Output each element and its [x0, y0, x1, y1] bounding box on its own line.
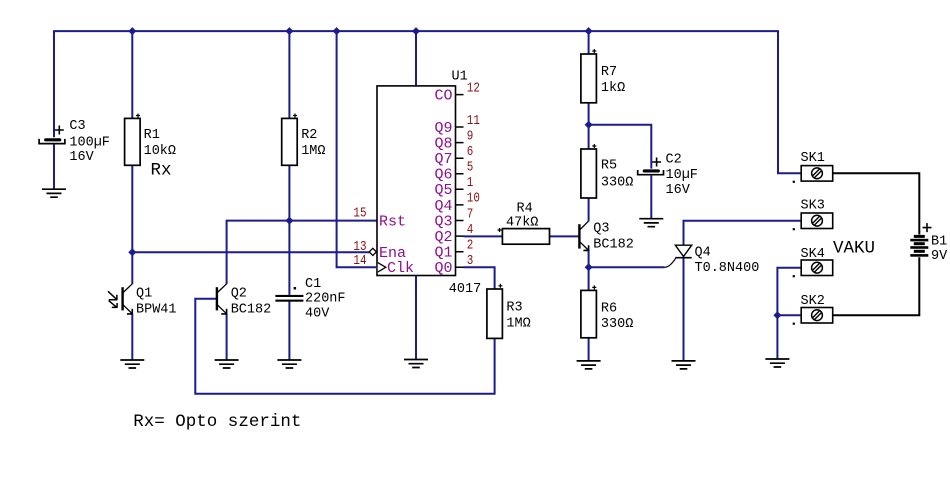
- wire Q3 emitter node: [588, 250, 590, 267]
- wire C3 bottom to ground: [53, 144, 55, 190]
- svg-text:5: 5: [467, 159, 474, 175]
- capacitor C3 cup: [39, 139, 65, 144]
- svg-text:VAKU: VAKU: [833, 238, 875, 258]
- svg-text:Q6: Q6: [434, 167, 452, 184]
- U1 Clk edge triangle pin 14: [378, 263, 386, 272]
- svg-text:R6: R6: [601, 302, 617, 317]
- wire Q1 emitter to ground: [131, 314, 133, 360]
- connector SK1 box: [801, 166, 833, 182]
- node Ena junction at Q1 collector: [128, 248, 136, 256]
- node Clk top junction: [333, 27, 341, 35]
- svg-text:3: 3: [467, 253, 474, 269]
- transistor Q1 collector diagonal: [123, 284, 132, 293]
- svg-text:10kΩ: 10kΩ: [144, 144, 176, 159]
- svg-text:16V: 16V: [69, 150, 94, 165]
- svg-text:1: 1: [467, 175, 474, 191]
- node Q3 emitter junction: [585, 263, 593, 271]
- transistor Q1 light arrow 2: [109, 301, 118, 308]
- node R1 top junction: [128, 27, 136, 35]
- thyristor Q4 cathode bar: [675, 257, 691, 259]
- wire SK1 to battery plus: [833, 173, 920, 234]
- wire Clk net: top rail down to U1 pin 14: [337, 31, 376, 267]
- resistor R1 pin marker: [136, 114, 140, 118]
- wire R6 bottom to ground: [588, 338, 590, 361]
- resistor R4 pin marker: [498, 228, 502, 232]
- svg-text:16V: 16V: [666, 183, 691, 198]
- resistor R3 pin marker: [498, 284, 502, 288]
- svg-text:C3: C3: [69, 119, 85, 134]
- capacitor C1 plates: [275, 295, 303, 297]
- ground U1 VSS: [404, 360, 428, 368]
- svg-text:Q9: Q9: [434, 120, 452, 137]
- svg-text:40V: 40V: [305, 307, 330, 322]
- transistor Q1 light arrow 1: [108, 291, 117, 300]
- resistor R6 pin marker: [592, 285, 596, 289]
- resistor R7 body: [581, 54, 597, 103]
- svg-text:15: 15: [353, 205, 366, 221]
- resistor R2 pin marker: [293, 114, 297, 118]
- capacitor C2 plus plate: [643, 169, 660, 172]
- node R7 R5 C2 junction: [585, 121, 593, 129]
- ground SK4 SK2: [765, 359, 789, 367]
- capacitor C2 cup: [638, 170, 664, 175]
- svg-text:BC182: BC182: [593, 238, 634, 253]
- ground R6: [577, 361, 601, 369]
- svg-text:Clk: Clk: [387, 260, 414, 277]
- transistor Q1 emitter arrow: [127, 309, 133, 314]
- svg-text:1kΩ: 1kΩ: [601, 81, 625, 96]
- svg-text:R5: R5: [601, 159, 617, 174]
- svg-text:Q4: Q4: [695, 245, 711, 260]
- wire node to R6 top: [588, 267, 590, 290]
- transistor Q2 emitter arrow: [221, 309, 227, 314]
- svg-text:R3: R3: [506, 301, 522, 316]
- svg-text:Q3: Q3: [434, 213, 452, 230]
- svg-text:Rst: Rst: [379, 213, 406, 230]
- node Rst junction at R2: [285, 217, 293, 225]
- node R7 top junction: [585, 27, 593, 35]
- svg-text:47kΩ: 47kΩ: [506, 216, 538, 231]
- ground Q4 cathode: [672, 361, 696, 369]
- connector SK2 box: [801, 308, 833, 324]
- wire R7 to R5: [588, 103, 590, 149]
- svg-text:9V: 9V: [931, 249, 948, 264]
- capacitor C3 plus sign: [55, 126, 64, 135]
- svg-text:12: 12: [467, 80, 480, 96]
- resistor R2 body: [282, 118, 298, 165]
- transistor Q1 emitter diagonal: [123, 305, 132, 313]
- svg-text:CO: CO: [434, 88, 452, 105]
- svg-text:Q8: Q8: [434, 136, 452, 153]
- node R2 top junction: [285, 27, 293, 35]
- U1 Ena inversion bubble pin 13: [369, 248, 376, 255]
- transistor Q2 emitter diagonal: [217, 305, 226, 313]
- svg-text:R1: R1: [144, 128, 160, 143]
- wire U1 VDD feed: [415, 31, 417, 86]
- wire U1 Q0 pin 3 to R3 top: [464, 267, 495, 289]
- svg-text:BC182: BC182: [231, 303, 272, 318]
- ground Q2 emitter: [215, 360, 239, 368]
- svg-text:U1: U1: [452, 70, 468, 85]
- svg-text:6: 6: [467, 144, 474, 160]
- svg-text:220nF: 220nF: [305, 292, 346, 307]
- wire Q2 emitter to ground: [226, 314, 228, 360]
- svg-text:SK2: SK2: [801, 294, 825, 309]
- svg-text:C2: C2: [666, 153, 682, 168]
- thyristor Q4 gate diagonal: [665, 258, 676, 267]
- resistor R6 body: [581, 290, 597, 337]
- svg-text:14: 14: [353, 253, 366, 269]
- svg-text:Q5: Q5: [434, 182, 452, 199]
- svg-text:11: 11: [467, 113, 480, 129]
- resistor R5 body: [581, 149, 597, 198]
- svg-text:SK4: SK4: [801, 247, 825, 262]
- transistor Q3 base bar: [578, 224, 580, 248]
- svg-text:SK3: SK3: [801, 199, 825, 214]
- svg-text:BPW41: BPW41: [136, 303, 177, 318]
- wire Q4 cathode to ground: [683, 258, 685, 361]
- svg-text:Q4: Q4: [434, 198, 452, 215]
- wire Ena net to U1 pin 13: [132, 251, 369, 253]
- svg-text:R7: R7: [601, 65, 617, 80]
- svg-text:1MΩ: 1MΩ: [506, 317, 530, 332]
- resistor R5 pin marker: [592, 144, 596, 148]
- wire Q3 emitter to Q4 gate: [589, 266, 665, 268]
- wire SK4 to ground node: [777, 268, 801, 316]
- svg-text:B1: B1: [931, 235, 947, 250]
- svg-text:C1: C1: [305, 277, 321, 292]
- wire Q1 collector: [131, 252, 133, 284]
- wire R5 bottom to Q3 collector: [588, 198, 590, 221]
- svg-text:9: 9: [467, 128, 474, 144]
- U1 pin stubs right: [456, 95, 464, 268]
- transistor Q2 base bar: [216, 287, 218, 310]
- svg-text:R2: R2: [301, 128, 317, 143]
- transistor Q3 emitter arrow: [583, 245, 589, 251]
- thyristor Q4 anode triangle: [675, 245, 691, 256]
- resistor R4 body: [502, 229, 549, 245]
- wire node to C2: [589, 125, 652, 169]
- resistor R7 pin marker: [592, 49, 596, 53]
- svg-text:Q2: Q2: [231, 287, 247, 302]
- svg-text:10: 10: [467, 191, 480, 207]
- wire Q2 base feedback loop to R3 bottom: [195, 299, 494, 394]
- ground C1: [277, 360, 301, 368]
- svg-text:2: 2: [467, 237, 474, 253]
- svg-text:10µF: 10µF: [666, 168, 698, 183]
- battery B1 plus sign: [923, 223, 932, 232]
- wire C1 bottom to ground: [288, 301, 290, 361]
- ground Q1 emitter: [120, 360, 144, 368]
- wire R4 to Q3 base: [550, 235, 580, 237]
- capacitor C2 plus sign: [652, 158, 661, 167]
- wire SK2 to ground node: [777, 314, 801, 316]
- resistor R1 body: [125, 118, 141, 165]
- ground C2: [639, 219, 663, 227]
- svg-text:Rx= Opto szerint: Rx= Opto szerint: [133, 412, 301, 432]
- resistor R3 body: [487, 289, 503, 338]
- battery B1 plates: [914, 235, 925, 238]
- op-amp U1 4017 body: [377, 86, 456, 276]
- svg-text:Q1: Q1: [434, 245, 452, 262]
- wire C2 bottom to ground: [650, 176, 652, 219]
- node U1 VDD junction: [412, 27, 420, 35]
- wire R2 bottom to C1: [288, 165, 290, 295]
- svg-text:Q1: Q1: [136, 287, 152, 302]
- transistor Q3 collector diagonal: [580, 221, 589, 230]
- wire Q4 anode to SK3: [684, 221, 802, 246]
- connector SK4 box: [801, 260, 833, 276]
- svg-text:R4: R4: [517, 202, 533, 217]
- transistor Q1 base bar: [121, 287, 123, 310]
- svg-text:Rx: Rx: [151, 161, 172, 181]
- wire R2 top feed: [288, 31, 290, 118]
- wire R1 top feed: [131, 31, 133, 118]
- svg-text:330Ω: 330Ω: [601, 317, 633, 332]
- svg-text:1MΩ: 1MΩ: [301, 144, 325, 159]
- capacitor C1 pin marker: [294, 287, 297, 290]
- capacitor C3 plus plate: [44, 138, 61, 141]
- ground C3: [42, 189, 66, 197]
- wire R7 top feed: [588, 31, 590, 54]
- svg-text:7: 7: [467, 206, 474, 222]
- wire Rst net: Q2 collector up and to U1 pin 15: [227, 221, 377, 284]
- connector SK3 box: [801, 213, 833, 229]
- svg-text:4017: 4017: [449, 282, 481, 297]
- svg-text:SK1: SK1: [801, 151, 825, 166]
- svg-text:330Ω: 330Ω: [601, 176, 633, 191]
- svg-text:100µF: 100µF: [69, 135, 110, 150]
- wire U1 VSS to ground: [415, 276, 417, 360]
- svg-text:Q7: Q7: [434, 151, 452, 168]
- transistor Q3 emitter diagonal: [580, 242, 588, 250]
- wire battery minus to SK2: [833, 257, 920, 315]
- svg-text:T0.8N400: T0.8N400: [695, 261, 760, 276]
- transistor Q2 collector diagonal: [217, 284, 226, 293]
- svg-text:Q3: Q3: [593, 222, 609, 237]
- wire ground node down: [776, 315, 778, 359]
- wire VCC top rail from C3 down-left, across to SK1: [54, 31, 801, 173]
- wire U1 Q2 pin 4 to R4: [464, 235, 503, 237]
- node SK4 SK2 ground junction: [773, 311, 781, 319]
- svg-text:Q0: Q0: [434, 260, 452, 277]
- svg-text:4: 4: [467, 222, 474, 238]
- svg-text:Q2: Q2: [434, 229, 452, 246]
- wire R1 bottom to Ena node: [131, 165, 133, 252]
